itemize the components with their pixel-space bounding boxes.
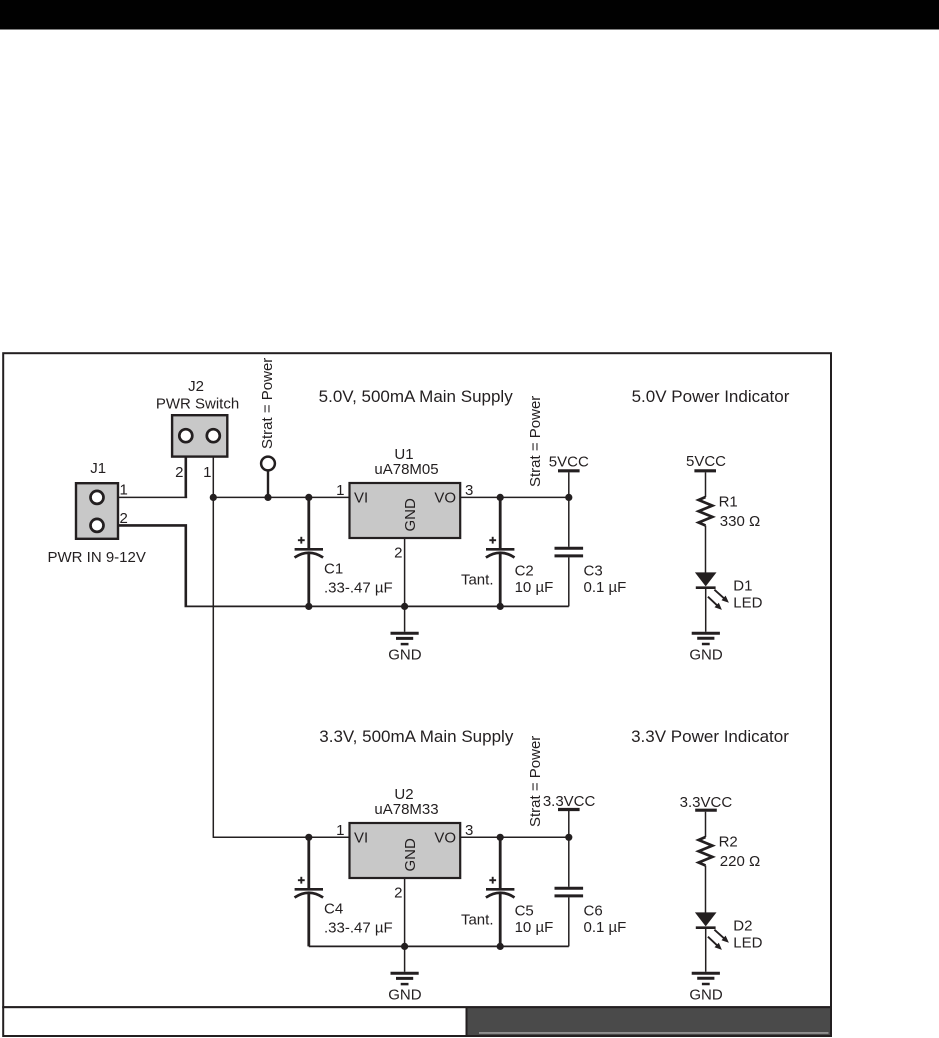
svg-text:PWR IN 9-12V: PWR IN 9-12V — [48, 549, 146, 566]
junction C2 / 5V bus — [497, 494, 504, 501]
junction C1 / 5V bus — [305, 494, 312, 501]
svg-text:VI: VI — [354, 830, 368, 847]
wire R1 to D1 — [705, 526, 707, 573]
wire U2 pin 3 (VO) to 3.3VCC node — [460, 836, 569, 838]
power flag 5VCC (main supply) — [558, 469, 580, 472]
svg-text:5VCC: 5VCC — [686, 453, 726, 470]
wire J2 pin 2 down to switch-input node — [185, 450, 188, 498]
svg-text:3.3VCC: 3.3VCC — [543, 793, 596, 810]
terminal Strat = Power (5V bus) — [261, 457, 275, 471]
svg-text:.33-.47 µF: .33-.47 µF — [324, 580, 393, 597]
junction C1 / ground bus — [305, 603, 312, 610]
svg-text:J2: J2 — [188, 378, 204, 395]
connector J1 — [76, 483, 118, 539]
junction U1 pin 2 / ground bus — [401, 603, 408, 610]
wire U1 pin 3 (VO) to 5VCC node — [460, 496, 569, 498]
svg-text:Tant.: Tant. — [461, 912, 494, 929]
junction Strat terminal / 5V bus — [264, 494, 271, 501]
wire 3.3VCC to R2 — [705, 812, 707, 837]
svg-text:GND: GND — [689, 647, 723, 664]
svg-text:GND: GND — [388, 647, 422, 664]
svg-text:1: 1 — [336, 482, 344, 499]
svg-text:3: 3 — [465, 822, 473, 839]
LED D2 — [695, 912, 717, 926]
ground symbol (5V indicator) — [692, 632, 720, 635]
svg-text:VO: VO — [434, 490, 456, 507]
svg-text:10 µF: 10 µF — [515, 919, 554, 936]
wire 5V input bus to U1 VI — [213, 496, 349, 498]
svg-text:uA78M05: uA78M05 — [374, 461, 438, 478]
svg-text:2: 2 — [394, 545, 402, 562]
svg-text:C3: C3 — [584, 563, 603, 580]
svg-text:R2: R2 — [719, 834, 738, 851]
wire 5VCC to R1 — [705, 472, 707, 497]
svg-text:GND: GND — [388, 987, 422, 1004]
svg-text:0.1 µF: 0.1 µF — [584, 579, 627, 596]
svg-text:3: 3 — [465, 482, 473, 499]
svg-text:Strat = Power: Strat = Power — [527, 736, 544, 827]
5V ground bus — [185, 605, 569, 607]
power flag 3.3VCC (indicator) — [695, 809, 717, 812]
svg-text:Tant.: Tant. — [461, 572, 494, 589]
power flag 5VCC (indicator) — [694, 469, 716, 472]
wire R2 to D2 — [705, 866, 707, 913]
svg-text:2: 2 — [394, 885, 402, 902]
svg-text:3.3VCC: 3.3VCC — [680, 794, 733, 811]
svg-text:C2: C2 — [515, 563, 534, 580]
junction J2 pin 1 / 5V bus — [210, 494, 217, 501]
3.3V ground bus — [309, 945, 569, 947]
svg-text:1: 1 — [203, 464, 211, 481]
wire J2 pin 1 down through 5V bus to 3.3V input — [212, 450, 214, 837]
svg-text:2: 2 — [120, 510, 128, 527]
capacitor C5 (tantalum) — [499, 837, 502, 888]
junction 5VCC / bus — [565, 494, 572, 501]
svg-text:10 µF: 10 µF — [515, 579, 554, 596]
wire D1 to ground — [705, 588, 707, 632]
capacitor C6 — [568, 837, 570, 887]
svg-text:GND: GND — [402, 838, 419, 872]
LED D1 — [695, 572, 717, 586]
junction 3.3VCC / bus — [565, 834, 572, 841]
junction C5 / ground bus — [497, 943, 504, 950]
svg-text:Strat = Power: Strat = Power — [259, 358, 276, 449]
capacitor C2 (tantalum) — [499, 497, 502, 548]
op-amp/regulator U1 body — [350, 483, 461, 538]
svg-text:LED: LED — [733, 595, 762, 612]
wire U1 pin 2 (GND) down — [404, 538, 406, 632]
capacitor C4 — [307, 837, 310, 888]
svg-text:5.0V, 500mA Main Supply: 5.0V, 500mA Main Supply — [319, 387, 514, 406]
svg-text:uA78M33: uA78M33 — [374, 801, 438, 818]
svg-text:1: 1 — [120, 482, 128, 499]
svg-text:VO: VO — [434, 830, 456, 847]
junction U2 pin 2 / ground bus — [401, 943, 408, 950]
wire 3.3V input to U2 VI — [213, 836, 350, 838]
wire J1 pin 2 to 5V ground bus (thick) — [97, 525, 186, 606]
svg-text:3.3V, 500mA Main Supply: 3.3V, 500mA Main Supply — [319, 727, 514, 746]
wire U2 pin 2 (GND) down — [404, 878, 406, 972]
svg-text:Strat = Power: Strat = Power — [527, 396, 544, 487]
svg-text:J1: J1 — [90, 460, 106, 477]
svg-text:PWR Switch: PWR Switch — [156, 396, 239, 413]
junction C2 / ground bus — [497, 603, 504, 610]
ground symbol (3.3V supply) — [391, 972, 419, 975]
svg-text:VI: VI — [354, 490, 368, 507]
resistor R2 — [699, 837, 713, 866]
svg-text:D1: D1 — [733, 578, 752, 595]
regulator U2 body — [350, 823, 461, 878]
svg-text:3.3V Power Indicator: 3.3V Power Indicator — [631, 727, 789, 746]
svg-text:5VCC: 5VCC — [549, 454, 589, 471]
connector J2 — [172, 415, 227, 456]
svg-text:C5: C5 — [515, 903, 534, 920]
capacitor C3 — [568, 497, 570, 546]
junction C4 / 3.3V bus — [305, 834, 312, 841]
svg-text:5.0V Power Indicator: 5.0V Power Indicator — [632, 387, 790, 406]
svg-text:1: 1 — [336, 822, 344, 839]
ground symbol (5V supply) — [391, 632, 419, 635]
svg-text:C4: C4 — [324, 901, 343, 918]
svg-text:330 Ω: 330 Ω — [720, 513, 760, 530]
svg-text:GND: GND — [689, 987, 723, 1004]
resistor R1 — [699, 497, 713, 526]
svg-text:2: 2 — [175, 464, 183, 481]
junction C5 / 3.3V bus — [497, 834, 504, 841]
wire D2 to ground — [705, 928, 707, 972]
capacitor C1 — [307, 497, 310, 548]
svg-text:D2: D2 — [733, 918, 752, 935]
svg-text:0.1 µF: 0.1 µF — [584, 919, 627, 936]
svg-text:LED: LED — [733, 935, 762, 952]
svg-text:GND: GND — [402, 498, 419, 532]
svg-text:C6: C6 — [584, 903, 603, 920]
svg-text:.33-.47 µF: .33-.47 µF — [324, 920, 393, 937]
svg-text:220 Ω: 220 Ω — [720, 853, 760, 870]
power flag 3.3VCC (main supply) — [558, 808, 580, 811]
svg-text:C1: C1 — [324, 561, 343, 578]
svg-text:R1: R1 — [719, 494, 738, 511]
wire J1 pin 1 to J2 pin 2 — [97, 496, 187, 498]
ground symbol (3.3V indicator) — [692, 972, 720, 975]
